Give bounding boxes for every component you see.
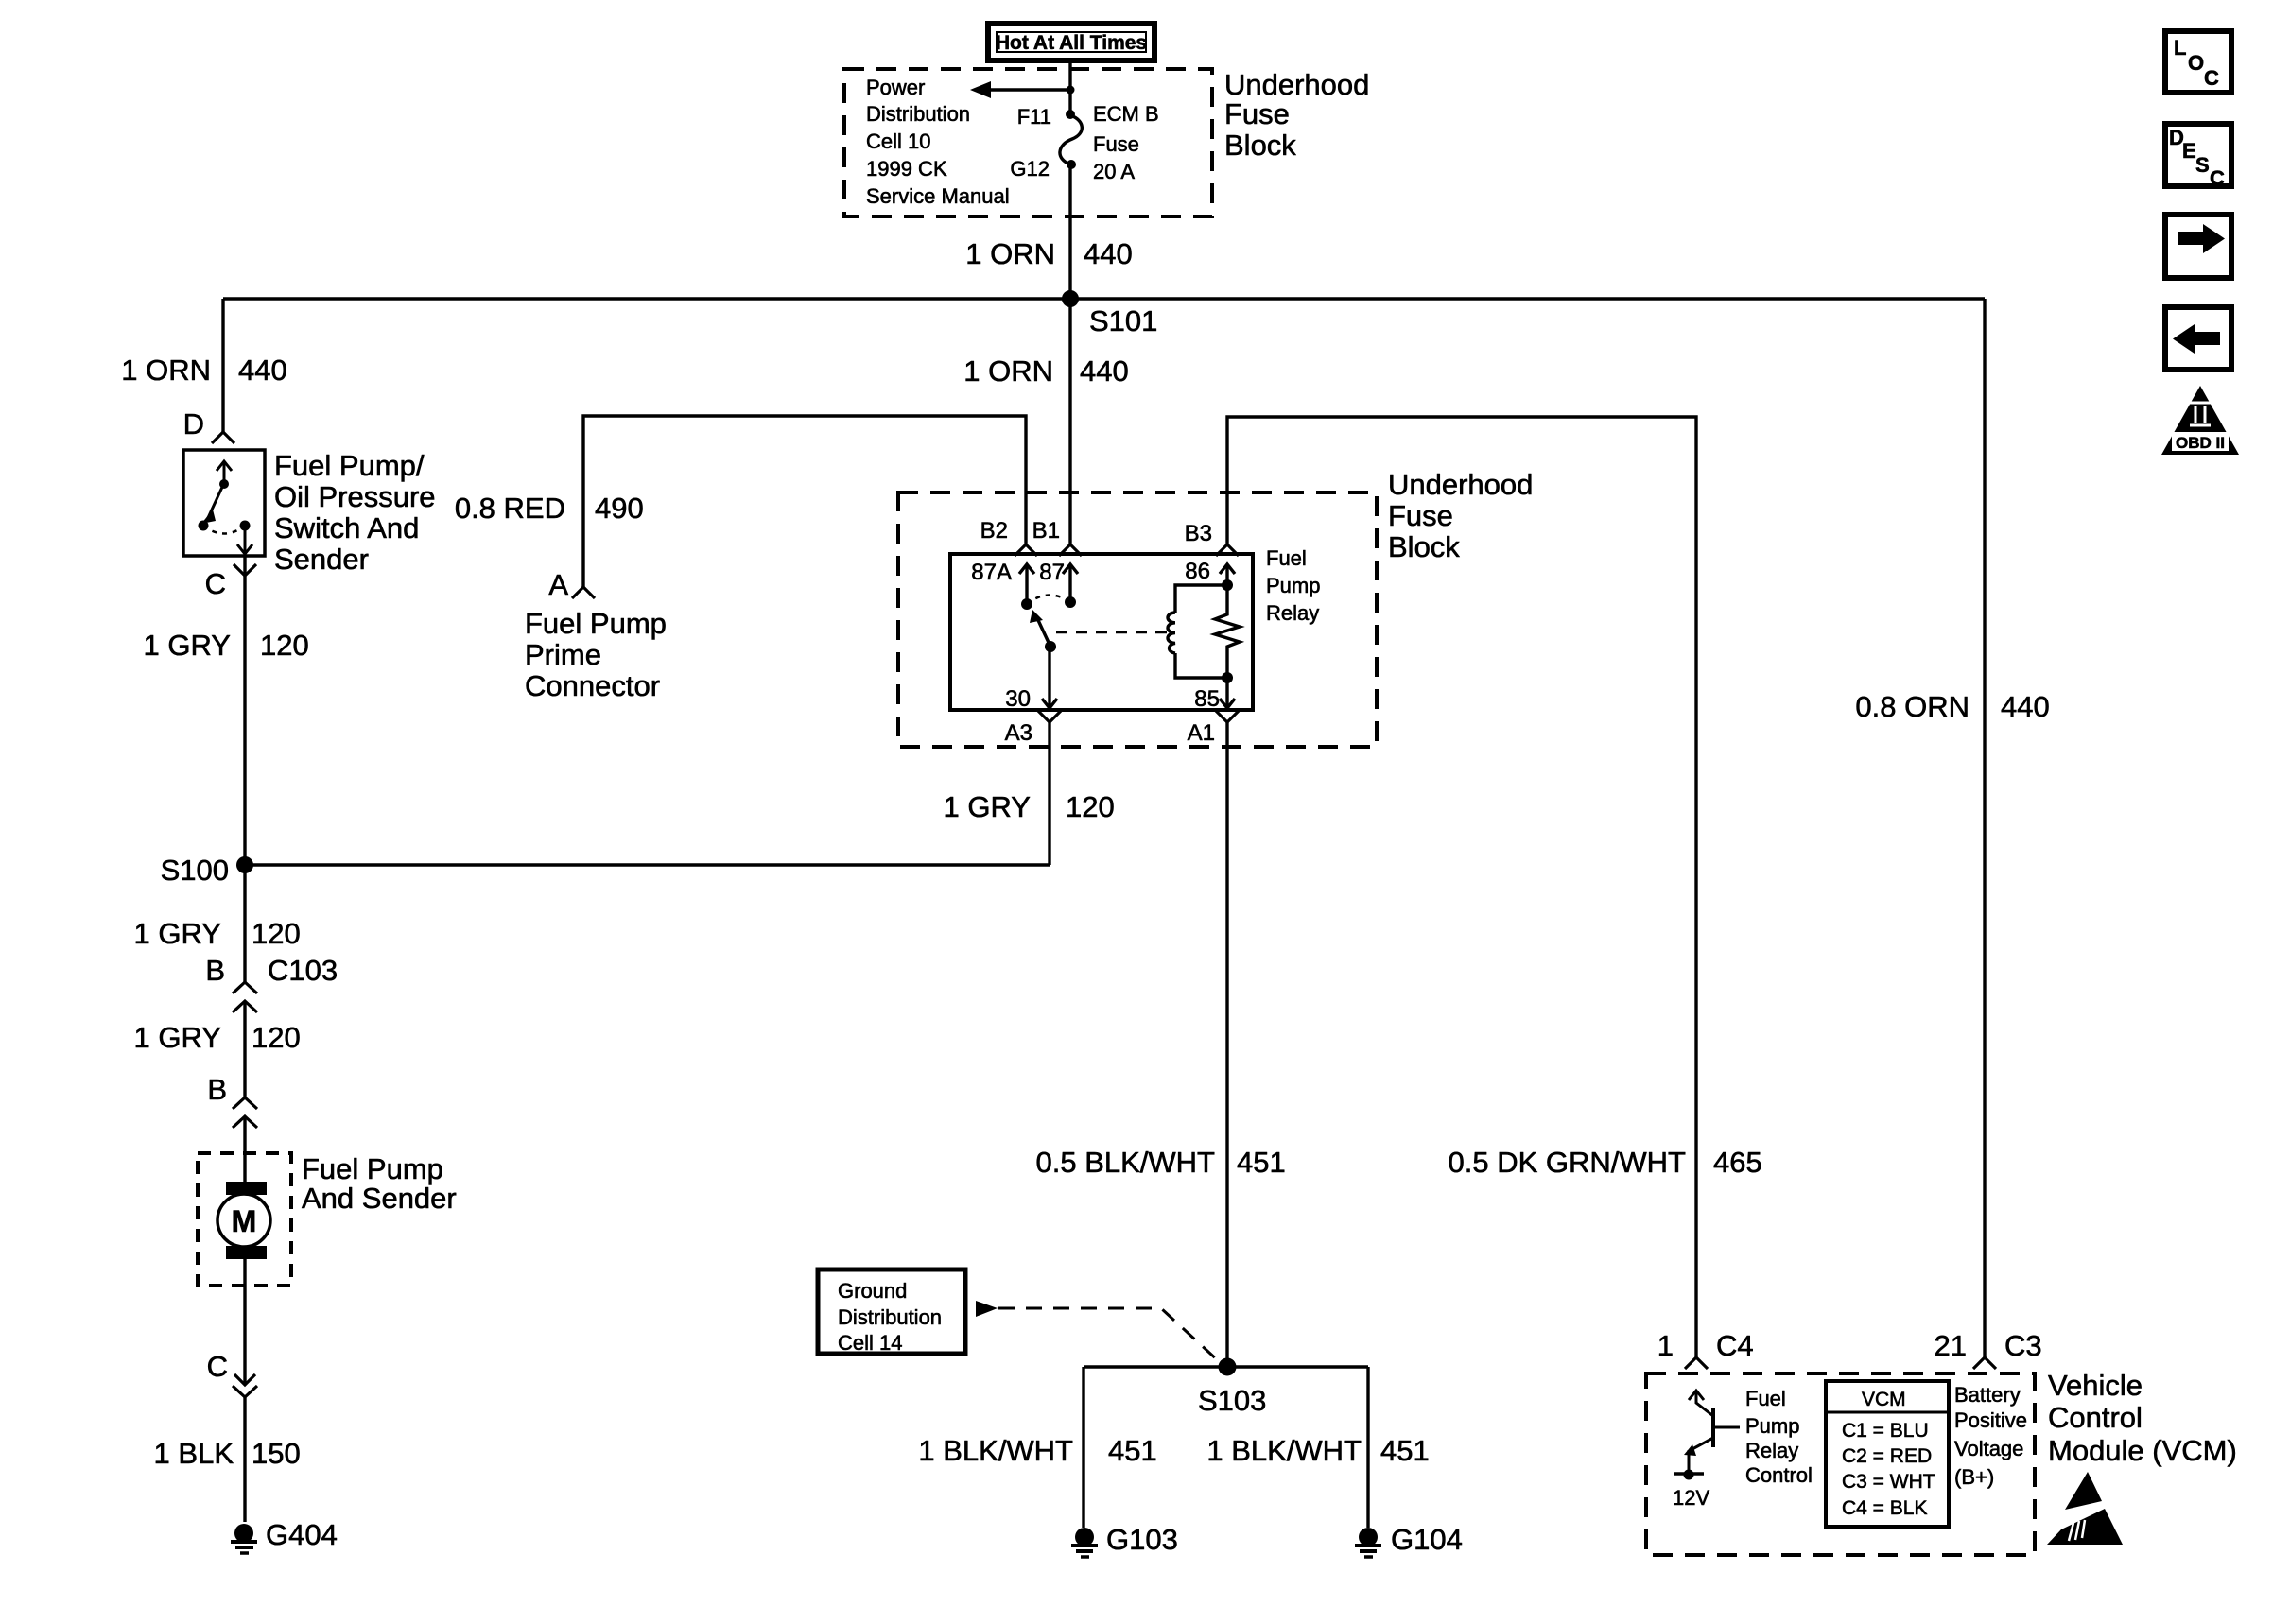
svg-text:Block: Block [1224, 129, 1296, 162]
svg-text:451: 451 [1237, 1146, 1286, 1179]
svg-text:Hot At All Times: Hot At All Times [996, 32, 1147, 54]
svg-text:G103: G103 [1106, 1523, 1178, 1556]
svg-text:490: 490 [595, 492, 644, 525]
svg-text:1999 CK: 1999 CK [866, 157, 947, 181]
svg-text:S: S [2195, 153, 2210, 177]
svg-text:Oil Pressure: Oil Pressure [274, 480, 436, 513]
svg-text:120: 120 [252, 917, 301, 950]
svg-text:1 ORN: 1 ORN [963, 354, 1053, 388]
svg-text:S101: S101 [1089, 304, 1157, 337]
svg-text:Distribution: Distribution [838, 1305, 942, 1329]
svg-text:B: B [205, 954, 225, 987]
svg-text:Relay: Relay [1745, 1439, 1798, 1462]
svg-text:1 GRY: 1 GRY [944, 790, 1031, 823]
svg-text:Relay: Relay [1266, 601, 1319, 625]
svg-text:21: 21 [1935, 1329, 1967, 1362]
svg-text:Block: Block [1388, 530, 1460, 563]
svg-text:Pump: Pump [1745, 1414, 1799, 1438]
svg-text:Underhood: Underhood [1388, 468, 1533, 501]
svg-text:440: 440 [1080, 354, 1129, 388]
svg-text:Sender: Sender [274, 543, 369, 576]
svg-text:465: 465 [1713, 1146, 1762, 1179]
svg-text:Control: Control [1745, 1463, 1813, 1487]
svg-text:And Sender: And Sender [302, 1182, 457, 1215]
svg-text:Fuse: Fuse [1224, 97, 1290, 130]
svg-text:C4: C4 [1716, 1329, 1754, 1362]
svg-text:120: 120 [260, 629, 309, 662]
svg-text:C: C [2210, 166, 2225, 190]
svg-text:Switch And: Switch And [274, 511, 419, 544]
svg-text:C: C [207, 1350, 228, 1383]
svg-text:440: 440 [1084, 237, 1133, 270]
svg-text:20 A: 20 A [1093, 160, 1135, 183]
svg-text:87: 87 [1039, 560, 1065, 585]
svg-text:C103: C103 [268, 954, 338, 987]
svg-text:Fuel: Fuel [1266, 546, 1307, 570]
svg-text:B3: B3 [1185, 521, 1212, 546]
svg-text:C3 = WHT: C3 = WHT [1842, 1471, 1935, 1493]
svg-text:Module (VCM): Module (VCM) [2048, 1434, 2237, 1467]
svg-text:Service Manual: Service Manual [866, 184, 1010, 208]
svg-text:C1 = BLU: C1 = BLU [1842, 1420, 1929, 1442]
svg-text:0.8 ORN: 0.8 ORN [1855, 690, 1969, 723]
svg-text:120: 120 [1066, 790, 1115, 823]
svg-text:Fuel Pump: Fuel Pump [525, 607, 667, 640]
svg-text:1 BLK/WHT: 1 BLK/WHT [918, 1434, 1073, 1467]
svg-text:M: M [232, 1204, 257, 1238]
svg-text:O: O [2188, 51, 2204, 75]
svg-text:B: B [207, 1073, 227, 1106]
svg-text:1 ORN: 1 ORN [121, 354, 211, 387]
svg-text:Cell 10: Cell 10 [866, 130, 930, 153]
svg-text:OBD II: OBD II [2176, 434, 2225, 452]
svg-text:Battery: Battery [1954, 1383, 2021, 1407]
svg-text:451: 451 [1108, 1434, 1157, 1467]
svg-text:0.5 DK GRN/WHT: 0.5 DK GRN/WHT [1449, 1146, 1687, 1179]
svg-text:S100: S100 [161, 854, 229, 887]
svg-text:0.5 BLK/WHT: 0.5 BLK/WHT [1036, 1146, 1216, 1179]
svg-text:86: 86 [1185, 559, 1210, 584]
svg-text:E: E [2182, 139, 2196, 163]
svg-text:Fuel Pump/: Fuel Pump/ [274, 449, 425, 482]
svg-text:A: A [548, 568, 568, 601]
svg-text:G404: G404 [266, 1518, 338, 1551]
svg-text:150: 150 [252, 1437, 301, 1470]
svg-text:1 ORN: 1 ORN [965, 237, 1055, 270]
svg-text:C: C [2204, 66, 2219, 90]
svg-text:VCM: VCM [1862, 1389, 1906, 1410]
svg-text:1 BLK: 1 BLK [154, 1437, 234, 1470]
svg-text:440: 440 [2001, 690, 2050, 723]
svg-text:Underhood: Underhood [1224, 68, 1369, 101]
svg-text:1 BLK/WHT: 1 BLK/WHT [1206, 1434, 1362, 1467]
svg-text:G104: G104 [1391, 1523, 1463, 1556]
svg-text:G12: G12 [1010, 157, 1050, 181]
svg-text:F11: F11 [1017, 105, 1051, 129]
svg-text:Fuel: Fuel [1745, 1387, 1786, 1410]
svg-text:451: 451 [1380, 1434, 1430, 1467]
svg-text:C: C [205, 567, 226, 600]
svg-text:85: 85 [1194, 686, 1220, 712]
svg-text:L: L [2174, 36, 2186, 60]
svg-text:(B+): (B+) [1954, 1465, 1994, 1489]
svg-text:Distribution: Distribution [866, 102, 970, 126]
svg-text:12V: 12V [1673, 1486, 1709, 1510]
svg-text:Pump: Pump [1266, 574, 1320, 597]
svg-text:B1: B1 [1032, 518, 1060, 544]
svg-text:S103: S103 [1198, 1384, 1266, 1417]
svg-text:A1: A1 [1188, 720, 1215, 746]
svg-text:Ground: Ground [838, 1279, 907, 1303]
svg-text:D: D [183, 407, 204, 441]
svg-text:Control: Control [2048, 1401, 2143, 1434]
svg-text:Power: Power [866, 76, 925, 99]
svg-text:1: 1 [1657, 1329, 1674, 1362]
svg-text:C2 = RED: C2 = RED [1842, 1445, 1932, 1467]
svg-text:Voltage: Voltage [1954, 1437, 2023, 1460]
svg-text:Positive: Positive [1954, 1408, 2027, 1432]
svg-text:1 GRY: 1 GRY [144, 629, 231, 662]
svg-text:Vehicle: Vehicle [2048, 1369, 2143, 1402]
svg-text:Cell 14: Cell 14 [838, 1331, 902, 1355]
svg-text:1 GRY: 1 GRY [134, 917, 221, 950]
svg-text:ECM B: ECM B [1093, 102, 1159, 126]
svg-text:120: 120 [252, 1021, 301, 1054]
svg-text:B2: B2 [980, 518, 1008, 544]
svg-text:C4 = BLK: C4 = BLK [1842, 1497, 1927, 1519]
svg-text:C3: C3 [2004, 1329, 2042, 1362]
svg-text:A3: A3 [1005, 720, 1032, 746]
svg-text:1 GRY: 1 GRY [134, 1021, 221, 1054]
svg-text:Fuel Pump: Fuel Pump [302, 1152, 443, 1185]
svg-text:30: 30 [1005, 686, 1031, 712]
svg-text:Prime: Prime [525, 638, 601, 671]
svg-text:Fuse: Fuse [1388, 499, 1453, 532]
svg-text:Connector: Connector [525, 669, 660, 702]
svg-text:440: 440 [238, 354, 287, 387]
svg-text:Fuse: Fuse [1093, 132, 1139, 156]
svg-text:0.8 RED: 0.8 RED [455, 492, 565, 525]
svg-text:87A: 87A [971, 560, 1012, 585]
